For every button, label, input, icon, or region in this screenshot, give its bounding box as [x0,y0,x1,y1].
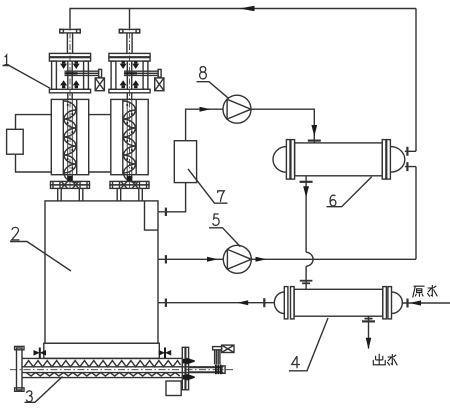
HX4 top flange ticks [300,280,313,282]
arrow down from HX6 [303,186,309,197]
crossover hop [306,252,313,266]
heat exchanger 4 body [294,289,383,316]
wire: control box bottom to cylinder 1 [16,154,52,172]
conveyor left flange [17,348,23,390]
tank collar clamp left [34,348,47,359]
screw press 1 [49,21,104,201]
HX4 left flange [284,287,288,319]
label 3 [26,391,32,402]
heat exchanger 6 body [295,143,383,176]
screw press 2 [109,21,164,201]
conveyor screw lower zigzag [26,373,180,376]
label 2 [12,227,20,240]
arrow on top return line (left) [240,6,255,11]
label 4 [292,356,300,368]
left control box [7,129,24,154]
label 7 [218,191,225,202]
conveyor (3) trough [22,358,182,377]
raw water inlet 原水 [402,302,450,304]
wire: pump 8 to HX6 top [251,109,314,143]
pump 8 [223,95,251,123]
label 1 [5,55,9,65]
arrow to tank [237,300,248,305]
arrow raw water [410,300,422,305]
tank bottom collar [44,343,160,358]
conveyor drive support column [215,350,220,365]
arrow outlet water [366,338,372,349]
HX6 right flange [382,140,386,180]
wire: top return line [70,9,416,29]
wire: control box top to cylinder 1 [16,115,52,130]
conveyor shaft [22,367,223,373]
tank top-right inner chute [145,201,159,230]
HX6 left flange [286,140,290,180]
HX6 right dome [390,147,404,173]
conveyor shaft end cap [222,366,225,373]
HX4 right flange [383,287,387,319]
HX4 left dome [274,292,284,314]
HX6 bottom outlet down to HX4 [305,176,307,289]
label 8 [200,67,207,79]
conveyor drive X-box [222,345,234,352]
flange tick [165,208,167,216]
wire: jacket pipe between cylinders (upper) [89,114,111,116]
tank nozzle to pump 5 [158,258,223,260]
tank nozzle to thickener (7) [158,183,186,212]
label 6 [330,195,336,206]
wire: thickener to pump 8 [186,109,223,141]
conveyor gland (black bars) [215,365,222,375]
conveyor right flange [182,347,185,390]
wire: right riser to top line [415,9,417,152]
conveyor shaft centerline [10,369,235,371]
conveyor flange bolts (black) [183,358,195,381]
arrow into pump 8 [200,107,211,112]
arrow into pump 5 [207,257,218,262]
HX6 right nozzles [405,151,416,166]
arrow from pump 5 [256,257,267,262]
conveyor screw upper zigzag [24,361,181,367]
pump 5 [223,245,251,273]
flange tick HX6 top [308,140,321,142]
outlet water down 出水 [368,316,370,348]
conveyor shaft extension [189,368,221,373]
tank (2) body [45,201,158,343]
出水 text (drawn strokes) [373,354,397,366]
wire: right downcomer to pump5 line [415,167,417,260]
conveyor discharge box [166,381,181,396]
wire: pump 5 outlet to right downcomer [251,258,416,260]
wire: jacket pipe between cylinders (lower) [89,171,111,173]
HX6 left dome [273,147,286,173]
label 5 [213,214,219,225]
wire: HX4 left outlet to tank [158,302,274,304]
tank collar clamp right [159,348,171,359]
thickener box 7 [174,141,196,183]
flange tick below HX6 [300,181,313,183]
HX4 right dome [392,292,403,314]
原水 text (drawn strokes) [413,285,438,298]
arrow down into HX6 [311,125,317,136]
